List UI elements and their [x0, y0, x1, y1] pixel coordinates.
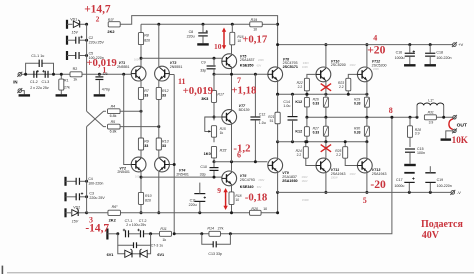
svg-text:R6″: R6″	[112, 205, 119, 209]
svg-text:2SC5200: 2SC5200	[372, 63, 387, 67]
zener VD3 6V1	[125, 250, 132, 257]
svg-text:160V: 160V	[302, 65, 308, 69]
resistor R3 2K2	[108, 22, 120, 27]
transistor VT10 2SC5200	[316, 67, 331, 82]
ground at OUT	[441, 138, 452, 140]
svg-text:9: 9	[217, 186, 221, 195]
svg-text:+0,17: +0,17	[242, 33, 268, 45]
svg-text:230V: 230V	[350, 63, 356, 67]
svg-text:2.2: 2.2	[298, 85, 303, 89]
resistor R9 33	[138, 138, 143, 150]
node VD1/R3	[85, 23, 88, 26]
svg-text:230V: 230V	[350, 172, 356, 176]
svg-text:2N5401: 2N5401	[176, 172, 189, 176]
svg-text:6.8k: 6.8k	[110, 130, 117, 134]
svg-text:230V: 230V	[303, 61, 309, 65]
svg-text:0.33: 0.33	[354, 130, 361, 134]
svg-text:R5: R5	[111, 120, 116, 124]
red arc output connector	[449, 119, 453, 130]
capacitor C7-3 1u loop	[118, 234, 134, 245]
capacitor C18 100-220n	[429, 43, 432, 46]
svg-text:2SA1943: 2SA1943	[372, 172, 387, 176]
svg-text:100-220n: 100-220n	[436, 56, 451, 60]
svg-text:51: 51	[270, 119, 274, 123]
svg-text:OUT: OUT	[457, 123, 467, 129]
node top supply joint	[276, 23, 279, 26]
node input/C1 junction	[24, 73, 27, 76]
node VT3 collector to supply	[157, 23, 160, 26]
wire VT7 emitter down	[231, 124, 233, 161]
wire VT4 collector to bottom supply	[158, 172, 160, 213]
svg-text:-1,2: -1,2	[233, 143, 250, 155]
svg-text:220u 25V: 220u 25V	[89, 196, 105, 200]
svg-text:160V: 160V	[302, 179, 308, 183]
capacitor C2 220u 25V	[66, 36, 68, 45]
svg-text:C10: C10	[200, 165, 207, 169]
svg-text:C1-2: C1-2	[30, 80, 38, 84]
svg-text:4: 4	[373, 34, 377, 43]
wire VT12 collector to +V rail	[366, 45, 368, 68]
capacitor C7-2	[140, 230, 142, 237]
capacitor C13 33p loop	[200, 232, 203, 235]
capacitor C15 100n	[405, 148, 415, 150]
svg-text:C4: C4	[88, 177, 93, 181]
svg-text:R3″: R3″	[108, 18, 115, 22]
resistor R26 0.33	[324, 93, 327, 96]
terminal +V	[453, 43, 457, 47]
svg-text:100-220n: 100-220n	[88, 182, 103, 186]
svg-text:C18: C18	[436, 51, 443, 55]
svg-text:2N5551: 2N5551	[117, 65, 130, 69]
svg-text:6V1: 6V1	[157, 253, 164, 257]
svg-text:+0,019: +0,019	[183, 85, 214, 97]
svg-text:3.9: 3.9	[415, 132, 420, 136]
svg-text:15V: 15V	[72, 220, 79, 224]
resistor R4 6.8k	[108, 109, 121, 114]
resistor R16 10	[230, 32, 235, 45]
resistor R7 33	[140, 81, 142, 87]
wire VT10 collector to +V rail	[325, 45, 327, 68]
svg-text:33: 33	[144, 144, 148, 148]
svg-text:KSE340: KSE340	[240, 185, 254, 189]
zener VD4 6V1	[140, 250, 147, 257]
svg-text:150W: 150W	[331, 176, 338, 180]
svg-text:R19: R19	[251, 18, 258, 22]
svg-text:2N5401: 2N5401	[117, 170, 130, 174]
wire VT2 collector	[140, 172, 142, 193]
resistor R1 27k	[60, 74, 62, 78]
wire VT13 collector to -V rail	[366, 173, 368, 193]
svg-text:1K0: 1K0	[204, 151, 212, 156]
resistor R25 2.2	[343, 147, 348, 159]
capacitor C5 100-220n	[66, 51, 68, 60]
terminal -V	[451, 191, 455, 195]
svg-text:2SC4793: 2SC4793	[240, 178, 255, 182]
svg-text:K12: K12	[295, 100, 302, 104]
resistor R20 10	[250, 210, 261, 215]
resistor R14 27k	[209, 231, 221, 236]
svg-text:R17: R17	[217, 92, 225, 96]
wire OUT ground	[446, 131, 453, 139]
wire bottom corner to -V rail	[277, 192, 279, 212]
svg-text:2 x 22u 25v: 2 x 22u 25v	[30, 86, 49, 90]
svg-text:-0,18: -0,18	[245, 191, 268, 203]
wire VT1 collector to VT5 base	[141, 57, 224, 59]
svg-text:10: 10	[253, 28, 257, 32]
node VT1 collector	[140, 57, 143, 60]
wire VT11 emitter with X	[325, 142, 327, 159]
svg-text:C3: C3	[89, 191, 94, 195]
output line	[307, 116, 417, 118]
svg-text:27k: 27k	[64, 86, 70, 90]
svg-text:KSE350: KSE350	[240, 63, 254, 67]
node C1-3 / R1	[52, 73, 55, 76]
svg-text:2: 2	[96, 14, 100, 23]
capacitor C9 33p	[213, 57, 216, 60]
svg-text:-V: -V	[457, 190, 461, 195]
resistor R13 33	[156, 138, 161, 150]
svg-text:2SC5200: 2SC5200	[331, 63, 346, 67]
+V rail	[278, 44, 453, 46]
-V rail	[278, 191, 451, 193]
svg-text:C19: C19	[437, 178, 444, 182]
capacitor C12 1.0u	[254, 73, 257, 76]
svg-text:R2: R2	[73, 67, 78, 71]
svg-text:2.2: 2.2	[297, 153, 302, 157]
svg-text:C8: C8	[189, 30, 194, 34]
svg-text:IN: IN	[13, 80, 17, 85]
svg-text:230V: 230V	[373, 67, 379, 71]
transistor VT6 2SC4793/KSE340	[222, 171, 237, 186]
resistor R6 2K2	[108, 210, 121, 215]
svg-text:2SA1930: 2SA1930	[282, 179, 297, 183]
svg-text:2SA1837: 2SA1837	[240, 58, 255, 62]
svg-text:6: 6	[237, 151, 241, 160]
svg-text:R9: R9	[144, 140, 149, 144]
svg-text:C17: C17	[396, 178, 403, 182]
fuse K12 bottom	[306, 117, 308, 126]
resistor R5 6.8k	[108, 124, 121, 129]
transistor VT8 2SC4793/2SC5171	[268, 67, 283, 82]
terminal OUT bottom	[453, 129, 456, 132]
svg-text:230V: 230V	[258, 58, 264, 62]
capacitor C19 100-220n	[429, 191, 432, 194]
ground bar below C15	[404, 164, 416, 166]
resistor R11 1k	[160, 231, 172, 236]
terminal OUT top	[453, 116, 456, 119]
svg-text:2.2: 2.2	[339, 85, 344, 89]
svg-text:1: 1	[102, 65, 106, 74]
resistor R29 0.33	[365, 93, 368, 96]
feedback vertical VT3/VT4 bases	[173, 75, 175, 234]
VAS bottom bus	[214, 161, 267, 163]
svg-text:VD1: VD1	[70, 18, 77, 22]
svg-text:C11: C11	[190, 198, 196, 202]
bottom border line	[7, 272, 474, 274]
svg-text:R20: R20	[251, 207, 258, 211]
wire VT9 collector to -V corner	[277, 173, 279, 193]
svg-text:R8: R8	[144, 33, 149, 37]
svg-text:C16: C16	[396, 51, 403, 55]
svg-text:2 x 100u 25v: 2 x 100u 25v	[126, 223, 146, 227]
node VT7 base	[213, 116, 216, 119]
wire VT11 collector to -V rail	[325, 173, 327, 193]
resistor R27 0.33	[325, 117, 327, 126]
svg-text:820: 820	[144, 39, 150, 43]
resistor R30 0.33	[366, 117, 368, 126]
svg-text:27k: 27k	[218, 227, 224, 231]
svg-text:R15': R15'	[220, 149, 228, 153]
wire R3 to top rail	[120, 16, 277, 68]
inductor L1	[416, 116, 419, 119]
resistor R8 820	[140, 24, 142, 32]
node VD2 junction	[85, 211, 88, 214]
red arrow 9	[225, 191, 227, 208]
svg-text:2K2: 2K2	[109, 217, 117, 222]
svg-text:C9: C9	[201, 61, 206, 65]
resistor R23 2.2	[346, 78, 351, 91]
wire VT8 emitter to NPN bus	[277, 82, 279, 95]
svg-text:33: 33	[162, 144, 166, 148]
capacitor C11 220u	[198, 211, 201, 214]
svg-text:1k: 1k	[73, 78, 77, 82]
svg-text:220u: 220u	[189, 203, 197, 207]
svg-text:+1,18: +1,18	[231, 85, 257, 97]
wire VT2 collector to VT6 base	[141, 176, 222, 178]
svg-text:+V: +V	[458, 42, 463, 47]
feedback line	[174, 117, 392, 234]
svg-text:C1-3: C1-3	[42, 80, 50, 84]
capacitor C7-1	[116, 232, 119, 235]
svg-text:33p: 33p	[200, 172, 206, 176]
wire VT2 base drop	[122, 73, 125, 76]
red arrow 10	[223, 30, 225, 47]
wire VT5 emitter to bus	[231, 69, 233, 110]
svg-text:R4: R4	[111, 105, 116, 109]
capacitor C10 33p	[213, 162, 215, 167]
svg-text:+20: +20	[367, 43, 385, 56]
svg-text:6V1: 6V1	[107, 253, 114, 257]
svg-text:2SA1943: 2SA1943	[331, 172, 346, 176]
resistor R15p 1K0	[211, 146, 216, 158]
svg-text:1k: 1k	[162, 238, 166, 242]
resistor R24 2.2	[303, 147, 308, 159]
capacitor C16 1000u	[408, 43, 411, 46]
svg-text:BD139: BD139	[239, 108, 250, 112]
wire VT3 base	[169, 74, 174, 76]
svg-text:160V: 160V	[134, 58, 140, 62]
resistor R18 10 (VT6 emitter)	[231, 186, 233, 192]
svg-text:60V: 60V	[257, 63, 262, 67]
node C9/R17 top bus	[213, 73, 216, 76]
svg-text:40V: 40V	[422, 230, 440, 241]
NPN emitter bus	[278, 93, 368, 95]
resistor R2 1k	[70, 72, 82, 77]
svg-text:C13 33p: C13 33p	[208, 252, 222, 256]
resistor R10 820	[138, 192, 143, 204]
svg-text:5: 5	[363, 196, 367, 205]
fuse K12 top	[305, 93, 308, 96]
capacitor C1-1 bypass loop	[26, 63, 39, 74]
svg-text:C2: C2	[89, 36, 94, 40]
resistor R28 3.9	[409, 116, 412, 119]
svg-text:6.8k: 6.8k	[110, 114, 117, 118]
capacitor C6 470p	[98, 73, 101, 76]
svg-text:2N5551: 2N5551	[170, 65, 183, 69]
wire to OUT	[436, 116, 452, 118]
svg-text:470p: 470p	[102, 88, 110, 92]
wire supply column lower	[86, 127, 88, 213]
svg-text:10K: 10K	[452, 135, 469, 145]
capacitor C14 1.0u	[291, 93, 294, 96]
capacitor C8 220u	[202, 23, 205, 26]
svg-text:15V: 15V	[72, 30, 79, 34]
svg-text:R10: R10	[145, 194, 152, 198]
transistor VT2 2N5401	[131, 157, 146, 172]
node VT2 collector line	[140, 176, 143, 179]
svg-text:33: 33	[162, 94, 166, 98]
wire front-end supply line	[141, 23, 250, 25]
svg-text:0.33: 0.33	[354, 101, 361, 105]
svg-text:820: 820	[145, 199, 151, 203]
node R15p bottom bus	[213, 160, 216, 163]
svg-text:C7-3 1u: C7-3 1u	[151, 244, 163, 248]
svg-text:-14,7: -14,7	[85, 222, 109, 234]
svg-text:1000u: 1000u	[395, 56, 405, 60]
svg-text:0.33: 0.33	[313, 101, 320, 105]
svg-text:0.33: 0.33	[313, 130, 320, 134]
svg-text:VD2: VD2	[73, 206, 80, 210]
wire supply column upper	[86, 24, 88, 111]
input ground terminal	[18, 89, 22, 93]
PNP emitter bus	[278, 141, 368, 143]
svg-text:100n: 100n	[417, 151, 425, 155]
resistor R17 3K3	[213, 74, 215, 90]
svg-text:7: 7	[237, 76, 241, 85]
transistor VT9 2SA1837/2SA1930	[268, 158, 283, 173]
wire bottom supply line	[87, 212, 108, 214]
zener VD1 15V	[66, 20, 68, 29]
svg-text:100-220n: 100-220n	[437, 184, 452, 188]
svg-text:10: 10	[237, 39, 241, 43]
svg-text:60V: 60V	[257, 185, 262, 189]
transistor VT7 BD139	[222, 110, 237, 125]
svg-text:1k: 1k	[220, 131, 224, 135]
svg-text:220u 25V: 220u 25V	[89, 41, 105, 45]
transistor VT5 2SA1837/KSE350	[231, 45, 233, 54]
resistor R31 3.9	[424, 115, 436, 120]
svg-text:R11: R11	[160, 227, 166, 231]
svg-text:2.2: 2.2	[336, 153, 341, 157]
transistor VT12 2SC5200	[357, 67, 372, 82]
svg-text:33: 33	[144, 94, 148, 98]
svg-text:Подается: Подается	[421, 219, 463, 230]
svg-text:10: 10	[214, 42, 222, 51]
svg-text:10: 10	[263, 207, 267, 211]
svg-text:2SC5171: 2SC5171	[283, 65, 298, 69]
svg-text:220u: 220u	[187, 34, 195, 38]
wire VT10 emitter with X	[325, 82, 327, 95]
svg-text:R1: R1	[64, 78, 69, 82]
svg-text:1.0u: 1.0u	[259, 121, 266, 125]
svg-text:K12: K12	[295, 129, 302, 133]
resistor R12 33	[158, 81, 160, 87]
wire R4 to VT1 emitter chain	[120, 110, 141, 112]
wire lower-to-R4	[87, 111, 106, 126]
wire VT12 emitter	[366, 82, 368, 95]
svg-text:C5: C5	[89, 51, 94, 55]
svg-text:L1*: L1*	[428, 99, 434, 103]
svg-text:150W: 150W	[302, 198, 309, 202]
wire cross upper-to-R5	[87, 111, 106, 126]
svg-text:R12: R12	[162, 89, 169, 93]
wire VT9 emitter to PNP bus	[277, 142, 279, 159]
capacitor C17 1000u	[408, 191, 411, 194]
red X mark top	[321, 84, 331, 91]
wire R5 to VT3 emitter chain	[120, 126, 159, 128]
resistor R19 10	[250, 22, 263, 27]
zener pair 6V1 loop	[118, 245, 125, 254]
svg-text:33p: 33p	[200, 68, 206, 72]
wire VT13 emitter	[366, 142, 368, 159]
svg-text:R13: R13	[162, 140, 169, 144]
ground	[19, 94, 31, 96]
svg-text:3.9: 3.9	[429, 121, 434, 125]
svg-text:R31: R31	[428, 111, 434, 115]
C7 block left bar	[106, 229, 108, 240]
svg-text:230V: 230V	[258, 178, 264, 182]
svg-text:10: 10	[235, 198, 239, 202]
svg-text:1000u: 1000u	[394, 184, 404, 188]
transistor VT3 2N5551	[155, 66, 170, 81]
wire VT6 collector to bus	[231, 162, 233, 171]
svg-text:-20: -20	[370, 178, 386, 191]
zener VD2 15V	[64, 208, 66, 217]
wire VT4 base	[169, 164, 174, 166]
svg-text:8: 8	[389, 106, 393, 115]
svg-text:2K2: 2K2	[107, 29, 115, 34]
transistor VT1 2N5551	[131, 66, 146, 81]
svg-text:C12: C12	[259, 112, 266, 116]
capacitor C4 100-220n	[64, 177, 66, 186]
wire input line	[26, 73, 132, 75]
transistor VT4 2N5401	[155, 157, 170, 172]
transistor VT13 2SA1943	[357, 158, 372, 173]
red X mark bottom	[321, 145, 331, 152]
svg-text:R14: R14	[207, 227, 214, 231]
trimmer R15 1k	[211, 126, 216, 137]
capacitor C3 220u 25V	[64, 192, 66, 201]
svg-text:230V: 230V	[302, 175, 308, 179]
svg-text:1.0u: 1.0u	[283, 104, 290, 108]
resistor R22 2.2	[304, 78, 309, 91]
VAS top bus	[214, 73, 270, 75]
svg-text:C1-1 1u: C1-1 1u	[31, 54, 44, 58]
capacitor C1-2	[33, 71, 35, 78]
input terminal IN	[18, 73, 22, 77]
transistor VT11 2SA1943	[316, 158, 331, 173]
resistor R21 51	[276, 93, 279, 96]
capacitor C1-3	[44, 71, 46, 78]
